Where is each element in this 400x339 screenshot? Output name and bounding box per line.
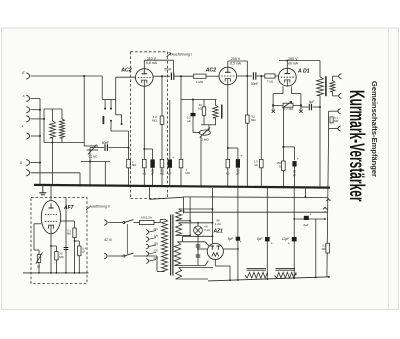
wire AC2a cathode	[143, 86, 145, 159]
output transformer secondary	[330, 81, 335, 92]
filter wire 2	[266, 187, 268, 280]
pot P3 arrow	[282, 102, 292, 108]
wire AF7 left drop	[33, 224, 35, 250]
wire sw1 to fuse	[134, 222, 140, 224]
wire to bus a	[89, 162, 91, 186]
coil L1	[50, 121, 56, 138]
choke D2	[275, 272, 297, 278]
wire C1 left	[90, 147, 104, 149]
secondary winding S2	[176, 223, 182, 236]
bottom bus junction	[293, 277, 295, 279]
capacitor C12 12uF	[292, 237, 297, 241]
svg-text:kΩ: kΩ	[254, 163, 257, 167]
wire T4	[31, 118, 45, 120]
heater rail 2	[184, 211, 328, 213]
wire AF7 top	[50, 185, 52, 201]
wire AC2b cathode	[227, 85, 229, 160]
pot P2 arrow	[200, 128, 210, 138]
wire AZ1 feed	[212, 188, 214, 244]
dashed box II	[31, 198, 87, 284]
svg-text:0,7 MΩ: 0,7 MΩ	[284, 107, 295, 111]
input terminal 5	[26, 133, 29, 139]
resistor R4	[160, 159, 164, 167]
bus II junction	[78, 272, 80, 274]
wire branch horiz	[84, 145, 98, 147]
junction T5	[39, 135, 41, 137]
secondary winding S3 HV	[174, 242, 180, 266]
svg-text:0,1A: 0,1A	[204, 228, 210, 232]
wire T1 corner down	[101, 76, 103, 100]
svg-text:MΩ: MΩ	[334, 119, 338, 123]
wire sw2 to prim	[134, 255, 158, 257]
wire heater join	[150, 197, 184, 199]
wire P4 top	[34, 249, 39, 251]
wire coil L3 lead	[214, 100, 216, 106]
pot P4 body	[37, 255, 40, 263]
pilot lamp	[194, 226, 203, 235]
coil L2 core winding	[60, 119, 65, 138]
wire R15 bus	[78, 256, 80, 273]
bus junction	[161, 185, 163, 187]
junction rail	[183, 210, 185, 212]
input terminal 4	[26, 116, 29, 122]
junction C13	[324, 218, 326, 220]
capacitor C3 50uF	[150, 159, 154, 167]
junction cath	[143, 148, 145, 150]
svg-text:205 V: 205 V	[231, 57, 241, 61]
wire sec right vert	[189, 197, 191, 236]
svg-text:1,2A: 1,2A	[215, 222, 221, 226]
wire HV mid	[183, 235, 213, 237]
wire low horiz	[81, 161, 110, 163]
capacitor AF7 bypass	[64, 247, 69, 249]
svg-text:kΩ: kΩ	[198, 107, 202, 111]
wire AC2b anode up	[227, 61, 229, 67]
svg-text:150: 150	[277, 161, 282, 165]
svg-text:A: A	[21, 94, 24, 98]
wire 4uF horiz	[301, 106, 309, 108]
wire R14 lead	[74, 221, 76, 228]
svg-text:50nF: 50nF	[164, 68, 171, 72]
svg-text:220: 220	[154, 249, 159, 253]
choke D2 core	[276, 267, 296, 269]
switch rail	[102, 99, 116, 101]
core bar L3	[221, 105, 223, 119]
heater capacitor Ca	[196, 244, 201, 246]
svg-text:62 N: 62 N	[104, 238, 112, 242]
chassis bus thick	[34, 185, 330, 188]
wire sec top	[331, 76, 333, 80]
long right vertical	[327, 129, 329, 278]
bus junction	[294, 186, 296, 188]
svg-text:50nF: 50nF	[102, 141, 109, 145]
wire R6 bot	[203, 115, 205, 124]
svg-text:MΩ: MΩ	[67, 232, 71, 236]
wire R2 bus	[143, 168, 145, 186]
grid wire corner	[115, 77, 117, 99]
wire heater drop left	[149, 187, 151, 199]
wire jack2 top	[329, 110, 338, 112]
junction grid leak2	[260, 75, 262, 77]
svg-text:Gemeinschafts-Empfänger: Gemeinschafts-Empfänger	[370, 81, 379, 177]
wire T7 corner down to bus	[79, 173, 81, 186]
junction ant top	[83, 75, 85, 77]
speaker hook bottom	[339, 93, 342, 98]
svg-text:+: +	[240, 240, 242, 244]
wire C4 bus	[169, 168, 171, 186]
mains terminal 2	[104, 253, 107, 259]
svg-text:µF: µF	[187, 119, 191, 123]
wire cath3 branch	[283, 146, 294, 148]
wire AF7 grid2 right	[61, 220, 75, 222]
anode rail AD1	[279, 60, 320, 62]
svg-text:MΩ: MΩ	[186, 171, 190, 175]
bottom bus junction	[237, 279, 239, 281]
bus junction	[123, 185, 125, 187]
wire AD1 cathode	[282, 107, 284, 161]
junction sec a	[189, 220, 191, 222]
rectifier tube AZ1	[207, 243, 223, 259]
wire C8 lead	[294, 147, 296, 160]
svg-text:MΩ: MΩ	[322, 247, 326, 251]
wire C13 down	[315, 219, 317, 277]
bus junction	[143, 185, 145, 187]
wire C3 bus	[152, 168, 154, 186]
svg-text:+: +	[297, 157, 299, 161]
junction R7 plate	[246, 75, 248, 77]
input terminal 3	[26, 107, 29, 113]
wire R8 to AD1	[275, 75, 278, 77]
capacitor C7 50uF	[236, 159, 240, 168]
switch lever 1	[124, 220, 134, 223]
svg-text:50nF: 50nF	[251, 82, 258, 86]
wire to pot	[193, 132, 200, 134]
wire C2 out	[174, 75, 193, 77]
wire AF7 cathode down	[50, 234, 52, 273]
wire cluster mid vert	[192, 100, 194, 133]
resistor R6 30k	[202, 107, 205, 116]
svg-text:1 MΩ: 1 MΩ	[201, 138, 209, 142]
bottom bus junction	[266, 278, 268, 280]
resistor R8 box	[265, 74, 275, 78]
switch lever 2	[124, 253, 134, 256]
wire coil left vert	[43, 109, 45, 143]
wire B+ drop	[319, 96, 321, 187]
wire mains 2	[108, 255, 123, 257]
wire xm left	[272, 105, 274, 109]
wire filament horiz	[273, 104, 301, 106]
resistor R10 cathode	[226, 159, 230, 167]
bus II	[23, 272, 89, 274]
wire pot down to bus	[200, 137, 202, 186]
switch contact S3	[115, 100, 117, 115]
capacitor C4 5uF	[168, 159, 172, 167]
svg-text:+: +	[309, 212, 311, 216]
junction C1	[128, 147, 130, 149]
wire R13 branch	[51, 245, 56, 247]
wire coil L2 lead	[61, 109, 63, 119]
wire R15 lead	[78, 241, 80, 246]
grid wire AC2a	[116, 76, 136, 78]
wire L2 bottom	[61, 138, 63, 143]
resistor R9	[260, 159, 264, 167]
svg-text:6,8 mA: 6,8 mA	[146, 61, 157, 65]
junction grid leak	[180, 75, 182, 77]
wire T2	[31, 97, 41, 99]
wire coil block drop	[52, 143, 54, 186]
wire AD1 anode up	[286, 61, 288, 69]
capacitor C5 0.1uF	[191, 113, 196, 116]
rail1 junction b	[305, 196, 307, 198]
bottom bus junction	[229, 279, 231, 281]
svg-text:+: +	[271, 241, 273, 245]
switch contact S2	[110, 100, 112, 109]
dashed box I bottom	[131, 198, 168, 200]
wire fuse to prim	[154, 222, 160, 224]
wire 4uF to B+	[313, 106, 321, 108]
wire jack2 vert	[328, 111, 330, 128]
wire cath branch	[144, 148, 152, 150]
wire AZ1 out	[223, 248, 238, 250]
bus II junction	[38, 272, 40, 274]
wire screen drop	[161, 76, 163, 116]
bottom bus power	[208, 277, 330, 281]
wire grid leak drop	[180, 76, 182, 159]
wire AD1 filament left	[282, 87, 284, 94]
svg-text:Ausführung I: Ausführung I	[171, 52, 192, 56]
jack hook 2a	[338, 109, 341, 114]
wire coil L1 lead	[52, 109, 54, 121]
junction T6	[39, 162, 41, 164]
svg-text:240: 240	[154, 256, 159, 260]
AF7 cathode	[49, 225, 54, 228]
svg-text:7 kΩ: 7 kΩ	[267, 80, 274, 84]
mains terminal 1	[104, 220, 107, 226]
junction trafo	[319, 106, 321, 108]
resistor R3 6.2M	[160, 116, 164, 124]
wire R11 bus	[282, 171, 284, 187]
wire xm right	[300, 105, 302, 109]
x-mark left	[272, 110, 275, 113]
svg-text:Kurmark-Verstärker: Kurmark-Verstärker	[345, 90, 369, 202]
wire R7 drop	[246, 61, 248, 115]
capacitor C11 8uF	[265, 237, 270, 241]
svg-text:AZ1: AZ1	[213, 228, 224, 234]
wire to bus b	[104, 162, 106, 186]
pot P1 arrow	[88, 145, 97, 155]
wire R4 bus	[161, 168, 163, 186]
svg-text:µF: µF	[82, 250, 85, 254]
wire R9 bus	[260, 168, 262, 186]
wire T7 to corner	[31, 172, 81, 174]
wire cluster bottom	[201, 124, 216, 126]
svg-text:MΩ: MΩ	[152, 118, 157, 122]
x-mark right	[299, 110, 302, 113]
wire AF7 grid left	[34, 223, 41, 225]
AF7 anode	[50, 204, 52, 209]
junction low	[89, 161, 91, 163]
svg-text:150: 150	[154, 241, 159, 245]
voltage tap 220	[146, 251, 149, 256]
wire AD1 filament right	[291, 87, 293, 94]
junction screen	[161, 75, 163, 77]
bus junction	[319, 186, 321, 188]
svg-text:110: 110	[154, 227, 159, 231]
wire AZ1 filament line	[198, 248, 207, 250]
trimmer bar	[102, 116, 104, 124]
resistor R12 small	[330, 117, 333, 123]
bus II junction	[74, 272, 76, 274]
power transformer core	[170, 215, 172, 276]
wire L1 bottom	[52, 138, 54, 143]
svg-text:+: +	[172, 155, 174, 159]
junction T4 on coil vert	[43, 118, 45, 120]
bus junction	[260, 186, 262, 188]
wire cluster top	[181, 99, 217, 101]
capacitor C9 4uF	[308, 104, 310, 110]
wire AC2a plate out	[153, 75, 170, 77]
wire R3 down	[161, 124, 163, 159]
wire T6	[31, 162, 41, 164]
filter wire 1	[237, 187, 239, 281]
wire cath2 branch	[228, 147, 238, 149]
svg-text:6S/1,2A: 6S/1,2A	[141, 216, 152, 220]
arrow Ausfuehrung II	[86, 207, 90, 211]
bus junction	[227, 186, 229, 188]
wire C3 lead	[152, 149, 154, 159]
capacitor C10 8uF	[236, 237, 240, 241]
svg-text:AF7: AF7	[63, 205, 74, 211]
choke D1 core	[247, 267, 267, 269]
wire R17 bus	[128, 168, 130, 186]
wire jack2 bot	[329, 128, 338, 130]
pot P4 arrow	[36, 252, 43, 263]
svg-text:125: 125	[154, 234, 159, 238]
bus II junction	[50, 272, 52, 274]
secondary winding S1	[176, 209, 182, 221]
tube AC2 no.1	[136, 69, 154, 87]
filter wire 3	[293, 187, 295, 279]
svg-text:Ausführung II: Ausführung II	[89, 205, 110, 209]
wire switch out	[111, 130, 129, 132]
wire R7 to bus	[246, 123, 248, 186]
svg-text:60 mA: 60 mA	[288, 62, 299, 66]
rail1 junction a	[212, 196, 214, 198]
svg-text:Ω: Ω	[279, 165, 281, 169]
bus junction	[104, 185, 106, 187]
power transformer primary	[162, 219, 168, 272]
pot P2 1M body	[199, 130, 210, 135]
wire L3 bot	[214, 118, 216, 125]
wire R17 drop	[128, 131, 130, 159]
output transformer primary	[317, 77, 324, 96]
heater rail 1	[184, 196, 328, 199]
choke D1	[245, 272, 268, 278]
jack hook 2b	[338, 126, 341, 131]
svg-text:MΩ: MΩ	[132, 163, 136, 167]
vertical input bus	[39, 98, 41, 185]
ground symbol	[42, 185, 44, 192]
wire 4uF rail	[294, 218, 325, 220]
AF7 grid 2	[45, 220, 57, 222]
wire R10 bus	[227, 168, 229, 186]
resistor R13	[55, 252, 58, 260]
wire C6 out	[256, 75, 264, 77]
dashed box I right	[167, 52, 169, 199]
wire P4 bus	[38, 263, 40, 273]
wire sec bottom	[331, 92, 333, 96]
fork rail1 end	[326, 198, 330, 201]
AF7 grid 1	[45, 214, 57, 216]
output transformer core	[325, 76, 327, 96]
wire T1 to switch	[31, 75, 103, 77]
wire heater drop right	[305, 187, 307, 197]
pot P3 body	[283, 103, 293, 107]
wire pot down	[89, 148, 91, 162]
wire R13 lead	[55, 246, 57, 252]
wire R6 lead	[203, 100, 205, 107]
input terminal 2	[26, 95, 29, 101]
resistor R2 cathode	[143, 159, 147, 167]
wire coil bottom rail	[44, 142, 84, 144]
wire anode down to cap	[173, 60, 175, 72]
switch contact S4	[110, 120, 112, 122]
bus II junction	[56, 272, 58, 274]
wire lamp down	[197, 235, 199, 266]
heater capacitor Cb	[196, 254, 201, 256]
tube AC2 no.2	[219, 67, 237, 85]
input terminal 7	[26, 170, 29, 176]
svg-text:6,5 mA: 6,5 mA	[230, 62, 241, 66]
capacitor C13 4uF	[304, 216, 309, 220]
capacitor C6 50nF	[252, 72, 254, 79]
resistor R11 150	[282, 161, 286, 171]
voltage tap 110	[146, 230, 149, 235]
wire box right vert	[65, 198, 67, 273]
voltage tap 125	[146, 237, 149, 242]
wire R5 bus	[180, 168, 182, 186]
wire coil top rail	[44, 108, 62, 110]
wire AC2b plate out	[237, 75, 252, 77]
bottom bus junction	[315, 277, 317, 279]
wire AC2a anode up	[143, 60, 145, 68]
fuse Si	[140, 220, 155, 224]
wire R1 to AC2b	[206, 75, 219, 77]
junction T3	[39, 109, 41, 111]
pot P1 track	[87, 149, 99, 151]
svg-text:1 MΩ: 1 MΩ	[196, 80, 204, 84]
svg-text:AC2: AC2	[120, 68, 131, 74]
svg-text:+: +	[288, 242, 290, 246]
wire T3	[31, 109, 41, 111]
wire R14 down	[74, 238, 76, 273]
wire R15 jumper	[75, 240, 80, 242]
input terminal 1	[26, 73, 29, 79]
wire rail to transformer	[319, 61, 321, 78]
wire R9 drop	[260, 76, 262, 159]
svg-text:4µF: 4µF	[303, 223, 308, 227]
bus junction	[200, 185, 202, 187]
wire T5	[31, 135, 41, 137]
input terminal 6	[26, 159, 29, 165]
junction g1	[272, 104, 274, 106]
arrow Ausfuehrung I	[167, 53, 172, 57]
tube AF7 oval	[41, 201, 60, 234]
resistor R15	[78, 246, 81, 256]
capacitor C1 50nF	[104, 144, 106, 151]
svg-text:12µF: 12µF	[282, 237, 290, 241]
bus II junction	[65, 272, 67, 274]
